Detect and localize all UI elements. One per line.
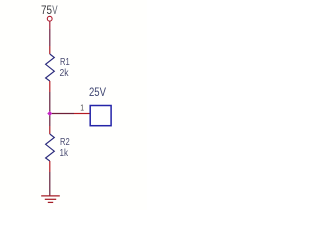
svg-text:1: 1	[80, 103, 84, 113]
svg-text:25V: 25V	[89, 85, 106, 99]
wire junction to box pin	[52, 113, 74, 115]
junction node dot	[47, 111, 52, 116]
wire R2 to ground	[49, 161, 51, 172]
svg-text:R1: R1	[60, 57, 70, 68]
svg-text:V: V	[52, 5, 58, 17]
svg-text:R2: R2	[60, 137, 70, 148]
svg-text:2k: 2k	[60, 68, 70, 79]
wire junction to R2	[49, 116, 51, 127]
wire terminal to R1	[49, 21, 51, 29]
resistor R2	[46, 134, 55, 161]
pin lead red	[74, 113, 90, 115]
svg-text:1k: 1k	[60, 148, 69, 159]
svg-text:75: 75	[41, 5, 52, 17]
terminal 75V	[47, 16, 52, 21]
ground	[41, 196, 60, 203]
resistor R1	[46, 54, 55, 81]
wire R1 to junction	[49, 81, 51, 92]
subcircuit box 25V	[90, 106, 111, 126]
